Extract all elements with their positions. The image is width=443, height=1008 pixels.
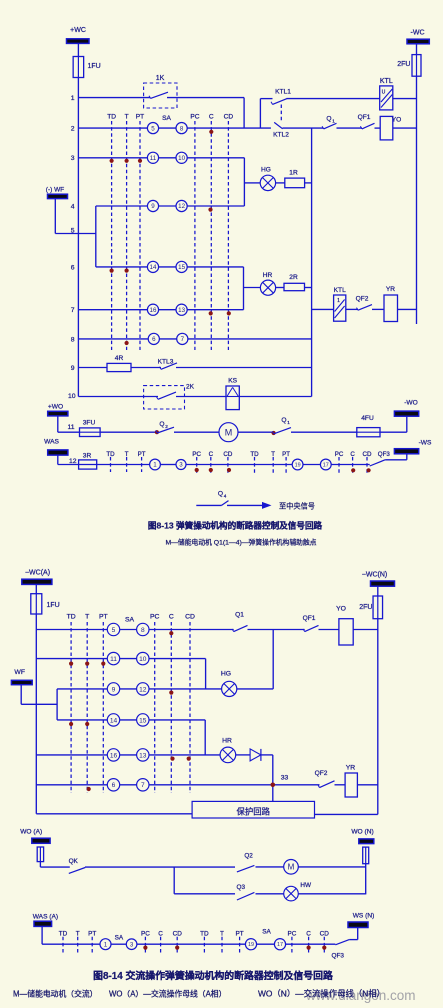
svg-text:SA: SA	[262, 929, 271, 936]
svg-text:保护回路: 保护回路	[237, 807, 271, 817]
svg-text:YO: YO	[392, 117, 402, 124]
svg-text:WS (N): WS (N)	[353, 913, 375, 920]
svg-text:8: 8	[180, 125, 184, 132]
svg-text:CD: CD	[320, 931, 330, 938]
svg-text:TD: TD	[200, 931, 209, 938]
svg-text:PT: PT	[282, 451, 290, 458]
svg-text:CD: CD	[363, 451, 372, 458]
svg-text:2: 2	[165, 424, 168, 429]
svg-text:U: U	[382, 90, 386, 96]
svg-text:Q2: Q2	[244, 853, 253, 860]
svg-text:2K: 2K	[186, 384, 195, 391]
svg-text:M—储能电动机（交流）: M—储能电动机（交流）	[13, 989, 97, 999]
svg-text:PC: PC	[192, 451, 201, 458]
svg-text:9: 9	[71, 365, 75, 372]
svg-text:Q: Q	[218, 491, 223, 498]
svg-text:TD: TD	[67, 614, 76, 621]
svg-text:T: T	[85, 614, 89, 621]
svg-text:4: 4	[224, 494, 227, 499]
svg-text:15: 15	[139, 717, 147, 724]
svg-text:10: 10	[139, 656, 147, 663]
svg-text:YR: YR	[346, 765, 356, 772]
svg-text:8: 8	[141, 627, 145, 634]
svg-text:PC: PC	[335, 451, 344, 458]
svg-text:1FU: 1FU	[47, 602, 60, 609]
svg-text:+WO: +WO	[48, 404, 63, 411]
svg-text:QK: QK	[69, 858, 79, 865]
svg-text:3: 3	[179, 462, 183, 469]
svg-text:YO: YO	[336, 606, 346, 613]
svg-text:12: 12	[178, 203, 185, 210]
svg-text:HW: HW	[300, 882, 312, 889]
svg-text:4FU: 4FU	[361, 415, 374, 422]
svg-text:TD: TD	[59, 931, 68, 938]
svg-text:13: 13	[178, 307, 185, 314]
svg-text:7: 7	[71, 307, 75, 314]
svg-text:-WO: -WO	[404, 400, 418, 407]
svg-text:M: M	[288, 863, 295, 872]
svg-text:HR: HR	[263, 272, 273, 279]
svg-text:PC: PC	[190, 114, 199, 121]
svg-text:10: 10	[178, 155, 185, 162]
svg-text:PT: PT	[136, 114, 144, 121]
svg-text:6: 6	[152, 336, 156, 343]
svg-text:1: 1	[337, 298, 340, 304]
svg-text:16: 16	[150, 307, 157, 314]
svg-text:CD: CD	[224, 114, 234, 121]
svg-text:C: C	[158, 931, 163, 938]
svg-text:5: 5	[112, 627, 116, 634]
svg-text:图8-13 弹簧操动机构的断路器控制及信号回路: 图8-13 弹簧操动机构的断路器控制及信号回路	[148, 519, 323, 530]
svg-text:HR: HR	[222, 738, 232, 745]
svg-text:C: C	[306, 931, 311, 938]
svg-text:M: M	[225, 427, 233, 437]
svg-text:TD: TD	[250, 451, 259, 458]
svg-text:T: T	[271, 451, 275, 458]
svg-text:PC: PC	[287, 931, 296, 938]
svg-text:WAS (A): WAS (A)	[33, 913, 58, 920]
svg-text:17: 17	[277, 942, 283, 948]
svg-text:QF2: QF2	[315, 770, 328, 777]
svg-text:T: T	[76, 931, 80, 938]
svg-text:WAS: WAS	[44, 439, 59, 446]
svg-text:2FU: 2FU	[397, 61, 410, 68]
svg-text:16: 16	[110, 752, 118, 759]
svg-text:13: 13	[139, 752, 147, 759]
svg-text:KTL: KTL	[380, 78, 393, 85]
svg-text:T: T	[220, 931, 224, 938]
svg-text:7: 7	[181, 336, 185, 343]
svg-text:PT: PT	[99, 614, 108, 621]
svg-text:KS: KS	[228, 378, 237, 385]
svg-text:1: 1	[287, 420, 290, 425]
svg-text:6: 6	[112, 782, 116, 789]
svg-text:SA: SA	[125, 617, 135, 624]
svg-text:CD: CD	[223, 451, 232, 458]
svg-text:1: 1	[332, 119, 335, 124]
svg-text:(-) WF: (-) WF	[46, 187, 64, 194]
svg-text:Q1: Q1	[235, 612, 244, 619]
svg-text:2: 2	[71, 126, 75, 133]
svg-text:Q: Q	[326, 116, 331, 123]
svg-text:C: C	[169, 614, 174, 621]
svg-text:T: T	[125, 451, 129, 458]
svg-text:PT: PT	[236, 931, 244, 938]
svg-text:1: 1	[71, 95, 75, 102]
svg-text:M—储能电动机 Q1(1—4)—弹簧操作机构辅助触点: M—储能电动机 Q1(1—4)—弹簧操作机构辅助触点	[165, 538, 316, 547]
svg-text:HG: HG	[261, 167, 271, 174]
svg-text:12: 12	[139, 686, 147, 693]
svg-text:−WC(N): −WC(N)	[362, 572, 387, 579]
svg-text:5: 5	[151, 125, 155, 132]
svg-text:WO (N): WO (N)	[351, 829, 373, 836]
svg-text:14: 14	[150, 264, 157, 271]
svg-text:KTL2: KTL2	[273, 132, 289, 139]
svg-text:15: 15	[178, 264, 185, 271]
svg-text:WO (A): WO (A)	[20, 829, 42, 836]
svg-text:Q: Q	[159, 421, 164, 428]
svg-text:WO（N）—交流操作母线（N相）: WO（N）—交流操作母线（N相）	[258, 989, 385, 999]
svg-text:PT: PT	[138, 451, 146, 458]
svg-text:图8-14 交流操作弹簧操动机构的断路器控制及信号回路: 图8-14 交流操作弹簧操动机构的断路器控制及信号回路	[93, 969, 333, 982]
svg-text:11: 11	[110, 656, 117, 663]
svg-text:YR: YR	[386, 286, 395, 293]
svg-text:KTL: KTL	[334, 287, 346, 294]
svg-text:17: 17	[323, 462, 329, 468]
svg-text:PT: PT	[88, 931, 96, 938]
svg-text:WO（A）—交流操作母线（A相）: WO（A）—交流操作母线（A相）	[109, 989, 226, 999]
svg-text:CD: CD	[173, 931, 183, 938]
svg-text:2R: 2R	[289, 274, 298, 281]
svg-text:C: C	[350, 451, 355, 458]
svg-text:-WS: -WS	[419, 440, 432, 447]
svg-text:-WC: -WC	[411, 30, 425, 37]
svg-text:9: 9	[112, 686, 116, 693]
svg-text:C: C	[209, 114, 214, 121]
svg-text:1: 1	[104, 941, 108, 948]
svg-text:Q3: Q3	[237, 884, 246, 891]
svg-text:7: 7	[141, 782, 145, 789]
svg-text:T: T	[125, 114, 129, 121]
svg-text:SA: SA	[115, 935, 124, 942]
svg-text:19: 19	[248, 942, 254, 948]
svg-text:TD: TD	[107, 114, 116, 121]
svg-text:9: 9	[151, 203, 155, 210]
svg-text:PC: PC	[150, 614, 160, 621]
svg-text:33: 33	[281, 775, 289, 782]
svg-text:3R: 3R	[83, 453, 92, 460]
svg-text:2FU: 2FU	[359, 604, 372, 611]
svg-text:TD: TD	[106, 451, 115, 458]
svg-text:11: 11	[67, 424, 74, 431]
svg-text:3: 3	[71, 155, 75, 162]
svg-text:4R: 4R	[115, 355, 124, 362]
svg-text:SA: SA	[162, 115, 171, 122]
svg-text:8: 8	[71, 336, 75, 343]
svg-text:11: 11	[150, 155, 157, 162]
svg-text:QF1: QF1	[303, 615, 316, 622]
svg-text:−WC(A): −WC(A)	[25, 570, 50, 577]
svg-text:+WC: +WC	[70, 27, 86, 34]
svg-text:6: 6	[71, 264, 75, 271]
svg-text:KTL3: KTL3	[158, 359, 174, 366]
svg-text:QF3: QF3	[378, 451, 391, 458]
svg-text:1: 1	[153, 462, 157, 469]
svg-text:至中央信号: 至中央信号	[279, 502, 315, 511]
svg-text:QF3: QF3	[331, 953, 344, 960]
svg-text:Q: Q	[281, 417, 286, 424]
svg-text:HG: HG	[221, 671, 231, 678]
svg-text:1R: 1R	[289, 170, 298, 177]
svg-text:QF1: QF1	[358, 114, 371, 121]
svg-text:QF2: QF2	[356, 296, 369, 303]
svg-text:3: 3	[130, 941, 134, 948]
svg-text:WF: WF	[14, 669, 25, 676]
svg-text:1FU: 1FU	[88, 63, 101, 70]
svg-text:KTL1: KTL1	[275, 89, 291, 96]
svg-text:1K: 1K	[156, 75, 165, 82]
svg-text:14: 14	[110, 717, 118, 724]
svg-text:3FU: 3FU	[83, 420, 96, 427]
svg-text:CD: CD	[185, 614, 195, 621]
svg-text:19: 19	[295, 462, 301, 468]
svg-text:4: 4	[71, 203, 75, 210]
svg-text:10: 10	[68, 393, 76, 400]
svg-text:C: C	[209, 451, 214, 458]
svg-text:PC: PC	[141, 931, 150, 938]
